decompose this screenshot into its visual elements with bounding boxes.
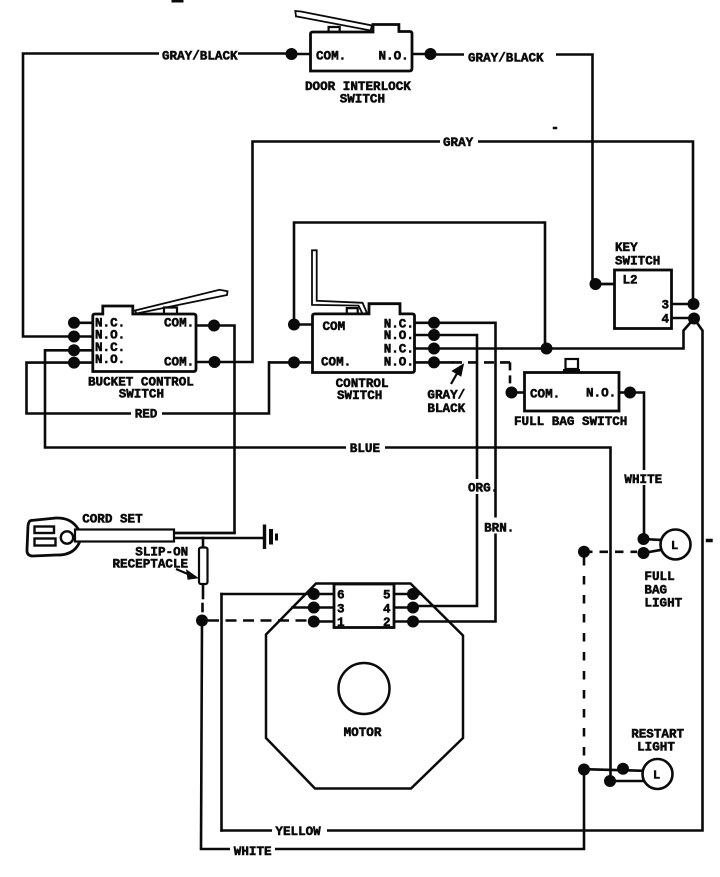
svg-text:N.O.: N.O. <box>586 387 616 401</box>
svg-text:BAG: BAG <box>644 583 667 597</box>
svg-text:FULL BAG SWITCH: FULL BAG SWITCH <box>514 415 627 429</box>
svg-text:RECEPTACLE: RECEPTACLE <box>113 558 189 572</box>
svg-text:SWITCH: SWITCH <box>337 389 382 403</box>
svg-text:WHITE: WHITE <box>624 473 662 487</box>
svg-text:ORG.: ORG. <box>468 481 498 495</box>
svg-text:GRAY/: GRAY/ <box>427 389 465 403</box>
svg-text:KEY: KEY <box>615 241 638 255</box>
svg-text:2: 2 <box>383 616 391 630</box>
svg-text:COM.: COM. <box>321 355 351 369</box>
svg-text:N.C.: N.C. <box>384 342 414 356</box>
svg-text:L: L <box>671 539 678 553</box>
svg-text:GRAY: GRAY <box>443 136 474 150</box>
svg-text:L2: L2 <box>623 274 638 288</box>
svg-text:GRAY/BLACK: GRAY/BLACK <box>468 52 544 66</box>
svg-text:SWITCH: SWITCH <box>119 388 164 402</box>
svg-text:COM.: COM. <box>316 50 346 64</box>
svg-text:COM: COM <box>323 320 346 334</box>
svg-text:5: 5 <box>383 589 391 603</box>
svg-text:CORD SET: CORD SET <box>82 513 143 527</box>
svg-text:L: L <box>653 769 660 783</box>
svg-text:SWITCH: SWITCH <box>615 255 660 269</box>
svg-text:MOTOR: MOTOR <box>344 726 382 740</box>
svg-text:N.O.: N.O. <box>379 50 409 64</box>
svg-text:3: 3 <box>337 603 345 617</box>
svg-text:RESTART: RESTART <box>631 727 684 741</box>
svg-text:LIGHT: LIGHT <box>644 597 682 611</box>
svg-text:N.O.: N.O. <box>384 355 414 369</box>
svg-text:1: 1 <box>337 616 345 630</box>
svg-text:LIGHT: LIGHT <box>637 741 675 755</box>
svg-text:4: 4 <box>662 313 670 327</box>
svg-text:SWITCH: SWITCH <box>340 93 385 107</box>
svg-text:N.O.: N.O. <box>95 353 125 367</box>
svg-text:BLUE: BLUE <box>350 442 381 456</box>
svg-text:BLACK: BLACK <box>427 402 465 416</box>
svg-text:FULL: FULL <box>644 570 674 584</box>
svg-text:N.O.: N.O. <box>384 329 414 343</box>
svg-text:WHITE: WHITE <box>234 845 272 859</box>
svg-text:COM.: COM. <box>164 317 194 331</box>
svg-text:RED: RED <box>135 407 158 421</box>
svg-text:COM.: COM. <box>164 355 194 369</box>
svg-text:3: 3 <box>662 299 670 313</box>
svg-text:6: 6 <box>337 589 345 603</box>
svg-text:BRN.: BRN. <box>484 521 514 535</box>
svg-text:YELLOW: YELLOW <box>275 825 321 839</box>
svg-text:GRAY/BLACK: GRAY/BLACK <box>162 50 238 64</box>
svg-text:4: 4 <box>383 603 391 617</box>
svg-text:COM.: COM. <box>530 388 560 402</box>
